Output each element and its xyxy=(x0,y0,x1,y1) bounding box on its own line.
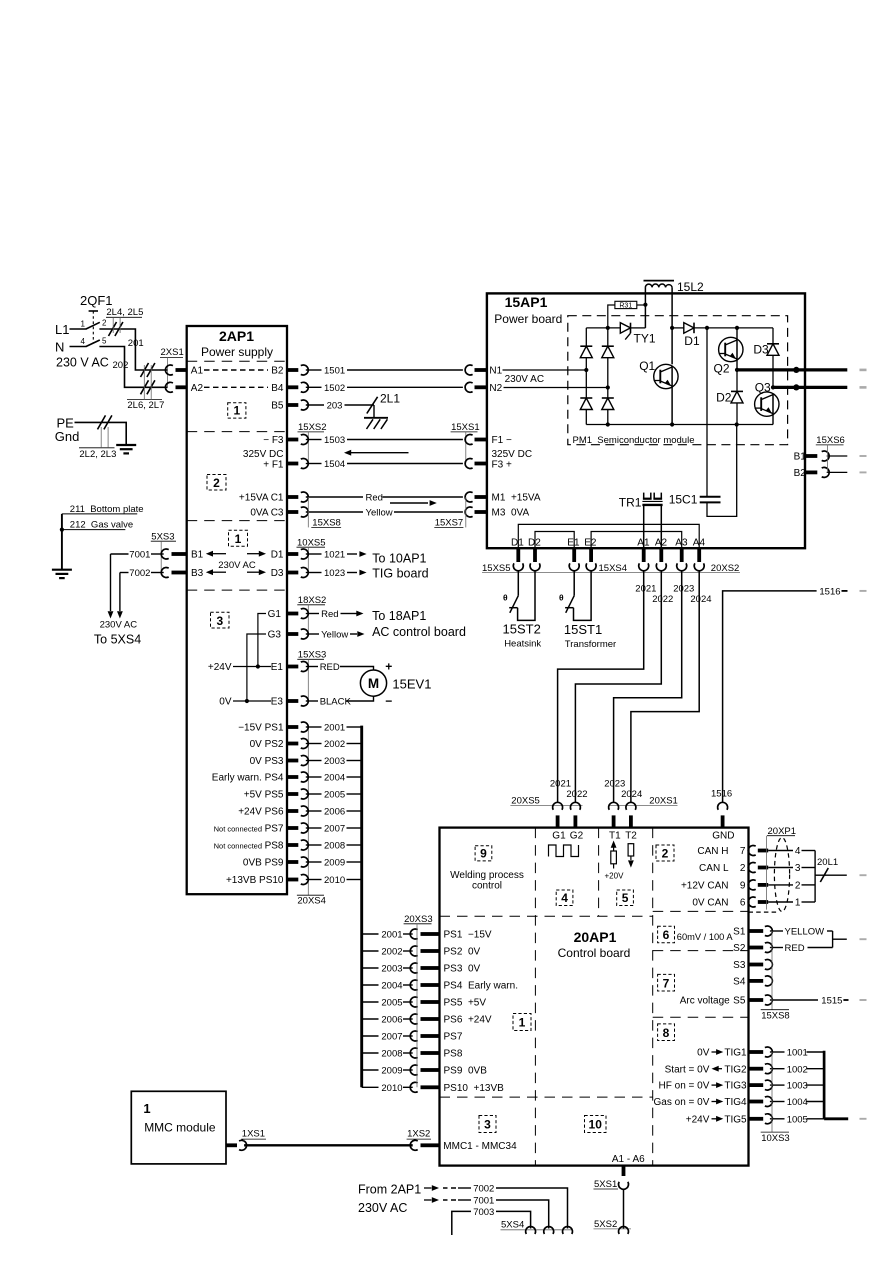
svg-text:2: 2 xyxy=(662,847,669,861)
svg-text:15C1: 15C1 xyxy=(669,493,698,507)
pin E3 / wire BLACK xyxy=(287,699,298,703)
diode bridge lower-right xyxy=(602,397,614,399)
svg-text:B5: B5 xyxy=(271,401,284,412)
svg-text:18XS2: 18XS2 xyxy=(298,595,327,606)
ground xyxy=(52,569,72,571)
diode D2 xyxy=(736,370,738,392)
svg-text:A1: A1 xyxy=(191,366,204,377)
wire PE xyxy=(75,422,127,445)
wire DC+ right xyxy=(694,327,773,329)
ferrite 20L1 xyxy=(820,868,828,882)
svg-text:1516: 1516 xyxy=(819,587,840,598)
svg-text:20XS5: 20XS5 xyxy=(511,796,540,807)
control board 20AP1 xyxy=(440,828,749,1166)
svg-text:T1: T1 xyxy=(609,830,621,841)
svg-text:20XS1: 20XS1 xyxy=(649,796,678,807)
svg-text:202: 202 xyxy=(113,360,129,371)
pin C3 / wire Yellow xyxy=(287,510,298,514)
pin PS4 / wire 2004 xyxy=(362,984,379,986)
TIG bus xyxy=(823,1051,826,1119)
svg-text:2: 2 xyxy=(740,863,746,874)
pin E1 / wire RED xyxy=(287,665,298,669)
svg-text:− F3: − F3 xyxy=(263,435,284,446)
svg-text:E2: E2 xyxy=(584,537,597,548)
svg-text:PS8: PS8 xyxy=(444,1049,463,1060)
section 2 xyxy=(656,845,674,861)
svg-text:B4: B4 xyxy=(271,383,284,394)
svg-text:D2: D2 xyxy=(716,391,732,405)
svg-text:G1: G1 xyxy=(552,830,566,841)
svg-text:+15VA C1: +15VA C1 xyxy=(239,492,284,503)
svg-text:Early warn. PS4: Early warn. PS4 xyxy=(212,773,284,784)
svg-text:2006: 2006 xyxy=(381,1015,402,1026)
svg-text:Arc voltage: Arc voltage xyxy=(680,996,730,1007)
svg-text:2: 2 xyxy=(102,319,107,328)
svg-text:2004: 2004 xyxy=(381,981,402,992)
cable label 2L4, 2L5 xyxy=(109,322,117,336)
svg-text:S5: S5 xyxy=(733,996,746,1007)
svg-text:S3: S3 xyxy=(733,960,746,971)
pin M1 on 15AP1 xyxy=(475,495,487,499)
svg-text:1023: 1023 xyxy=(324,568,345,579)
section 1 xyxy=(229,530,248,546)
svg-text:230V AC: 230V AC xyxy=(100,619,138,630)
svg-text:G1: G1 xyxy=(268,609,282,620)
svg-text:7002: 7002 xyxy=(129,568,150,579)
svg-text:20L1: 20L1 xyxy=(817,857,838,868)
ground xyxy=(116,444,136,446)
wire to ground xyxy=(61,514,63,570)
svg-text:2: 2 xyxy=(213,476,220,490)
section 10 xyxy=(585,1116,607,1133)
svg-text:2L4, 2L5: 2L4, 2L5 xyxy=(106,307,143,318)
pin F1- on 15AP1 xyxy=(475,438,487,442)
svg-text:15AP1: 15AP1 xyxy=(505,294,548,310)
svg-text:To 5XS4: To 5XS4 xyxy=(94,633,141,647)
svg-text:3: 3 xyxy=(484,1118,491,1132)
svg-text:20XS4: 20XS4 xyxy=(297,896,326,907)
svg-text:M3 0VA: M3 0VA xyxy=(492,508,530,519)
svg-text:D1: D1 xyxy=(271,550,284,561)
svg-text:15XS1: 15XS1 xyxy=(451,422,480,433)
svg-text:212 Gas valve: 212 Gas valve xyxy=(70,519,133,530)
pin F3 / wire 1503 xyxy=(287,438,298,442)
gate waveform xyxy=(549,845,579,857)
svg-text:2010: 2010 xyxy=(381,1083,402,1094)
svg-text:0V CAN: 0V CAN xyxy=(692,898,728,909)
wire 7003 bottom xyxy=(452,1211,471,1235)
svg-text:1503: 1503 xyxy=(324,435,345,446)
svg-text:2001: 2001 xyxy=(324,723,345,734)
thermostat 15ST2 xyxy=(517,571,519,596)
svg-text:−15V PS1: −15V PS1 xyxy=(238,723,284,734)
svg-text:7001: 7001 xyxy=(473,1196,494,1207)
svg-text:2010: 2010 xyxy=(324,875,345,886)
svg-text:15L2: 15L2 xyxy=(677,280,704,294)
wire 1516 xyxy=(723,591,817,803)
wire 2023 xyxy=(614,571,682,803)
svg-text:2: 2 xyxy=(795,881,801,892)
svg-text:TIG1: TIG1 xyxy=(724,1048,747,1059)
svg-text:1001: 1001 xyxy=(787,1048,808,1059)
pin PS5 / wire 2005 xyxy=(287,792,298,796)
svg-text:2005: 2005 xyxy=(324,790,345,801)
svg-text:7: 7 xyxy=(663,976,670,990)
svg-text:2021: 2021 xyxy=(550,778,571,789)
svg-text:Control board: Control board xyxy=(558,946,631,960)
svg-text:1: 1 xyxy=(519,1016,526,1030)
svg-text:1: 1 xyxy=(795,898,801,909)
svg-text:5: 5 xyxy=(622,891,629,905)
svg-text:7: 7 xyxy=(740,846,746,857)
svg-text:PS4 Early warn.: PS4 Early warn. xyxy=(444,981,518,992)
svg-text:HF on = 0V: HF on = 0V xyxy=(659,1081,710,1092)
svg-text:L1: L1 xyxy=(55,322,69,337)
svg-text:Q1: Q1 xyxy=(639,359,655,373)
svg-text:2009: 2009 xyxy=(324,858,345,869)
svg-text:Gnd: Gnd xyxy=(55,429,80,444)
svg-text:10XS3: 10XS3 xyxy=(761,1133,790,1144)
svg-text:D3: D3 xyxy=(271,568,284,579)
svg-text:230V AC: 230V AC xyxy=(505,374,544,385)
svg-text:2007: 2007 xyxy=(324,824,345,835)
svg-text:control: control xyxy=(472,880,502,891)
svg-text:G2: G2 xyxy=(570,830,584,841)
svg-text:15XS8: 15XS8 xyxy=(312,518,341,529)
svg-text:+20V: +20V xyxy=(605,872,625,881)
svg-text:0VB PS9: 0VB PS9 xyxy=(243,858,284,869)
svg-text:Q2: Q2 xyxy=(714,362,730,376)
section 3 xyxy=(479,1116,496,1133)
svg-text:S4: S4 xyxy=(733,977,746,988)
weld output line 2 xyxy=(773,386,847,389)
connector GND xyxy=(718,802,728,810)
svg-text:0V PS2: 0V PS2 xyxy=(250,739,284,750)
wire G1 to E1 xyxy=(258,614,266,667)
svg-text:7001: 7001 xyxy=(129,550,150,561)
svg-text:To 18AP1: To 18AP1 xyxy=(372,609,426,623)
svg-text:15XS7: 15XS7 xyxy=(435,518,464,529)
terminal bus D1-A4 xyxy=(518,524,699,548)
wire L1 xyxy=(70,328,87,330)
svg-text:RED: RED xyxy=(785,943,805,954)
svg-text:AC control board: AC control board xyxy=(372,625,466,639)
connector 10XS3 xyxy=(771,1052,773,1132)
svg-text:+24V: +24V xyxy=(208,662,232,673)
transistor Q3 xyxy=(755,392,779,416)
internal link A1-B2 xyxy=(204,369,268,371)
pin M3 on 15AP1 xyxy=(475,510,487,514)
svg-text:Start = 0V: Start = 0V xyxy=(665,1064,710,1075)
svg-text:E3: E3 xyxy=(271,697,284,708)
svg-text:2022: 2022 xyxy=(566,789,587,800)
svg-text:PS10 +13VB: PS10 +13VB xyxy=(444,1083,505,1094)
svg-text:Q3: Q3 xyxy=(755,381,771,395)
resistor R31 xyxy=(615,301,637,308)
arrow xyxy=(247,553,259,555)
section dividers xyxy=(534,828,536,1166)
svg-text:+5V PS5: +5V PS5 xyxy=(244,790,284,801)
capacitor 15C1 xyxy=(706,328,708,497)
svg-text:TIG5: TIG5 xyxy=(724,1114,747,1125)
svg-text:M: M xyxy=(368,676,379,691)
svg-text:2021: 2021 xyxy=(635,583,656,594)
svg-text:From 2AP1: From 2AP1 xyxy=(358,1182,421,1196)
svg-text:CAN L: CAN L xyxy=(699,863,729,874)
pin G3 / wire Yellow xyxy=(287,632,298,636)
svg-text:Power supply: Power supply xyxy=(201,345,273,359)
svg-text:+12V CAN: +12V CAN xyxy=(681,881,729,892)
svg-text:9: 9 xyxy=(740,881,746,892)
svg-text:230V AC: 230V AC xyxy=(358,1201,407,1215)
svg-text:D2: D2 xyxy=(528,537,541,548)
svg-text:θ: θ xyxy=(503,593,508,603)
svg-text:2003: 2003 xyxy=(381,964,402,975)
svg-text:0V: 0V xyxy=(219,697,232,708)
wire E3 xyxy=(233,700,271,702)
pin PS10 / wire 2010 xyxy=(287,878,298,882)
svg-text:E1: E1 xyxy=(567,537,580,548)
section 1 xyxy=(513,1014,531,1031)
svg-text:Welding process: Welding process xyxy=(450,870,524,881)
svg-text:5: 5 xyxy=(102,337,107,346)
svg-text:Red: Red xyxy=(321,609,338,620)
svg-text:A4: A4 xyxy=(693,537,706,548)
svg-text:1XS2: 1XS2 xyxy=(407,1128,430,1139)
pin PS4 / wire 2004 xyxy=(287,775,298,779)
pin D1 / wire 1021 xyxy=(287,552,298,556)
svg-text:8: 8 xyxy=(663,1026,670,1040)
svg-text:203: 203 xyxy=(327,401,343,412)
svg-text:A1 - A6: A1 - A6 xyxy=(612,1154,645,1165)
svg-text:B3: B3 xyxy=(191,568,204,579)
wire E1 xyxy=(233,666,271,668)
wire 7002 bottom xyxy=(424,1187,432,1189)
connector 15XS8 xyxy=(771,931,773,1010)
wire 7002 down xyxy=(119,573,121,612)
svg-text:15ST2: 15ST2 xyxy=(503,622,541,637)
svg-text:CAN H: CAN H xyxy=(697,846,728,857)
svg-text:2L2, 2L3: 2L2, 2L3 xyxy=(79,449,116,460)
arrow xyxy=(247,571,259,573)
svg-text:15XS5: 15XS5 xyxy=(482,563,511,574)
svg-text:2002: 2002 xyxy=(381,947,402,958)
pin D3 / wire 1023 xyxy=(287,571,298,575)
wire DC+ top xyxy=(586,327,620,329)
wire G3 to E3 xyxy=(247,634,266,701)
svg-text:2002: 2002 xyxy=(324,739,345,750)
svg-text:2006: 2006 xyxy=(324,807,345,818)
svg-text:3: 3 xyxy=(216,614,223,628)
connector 1XS1 xyxy=(226,1143,237,1147)
pin PS10 / wire 2010 xyxy=(362,1086,379,1088)
svg-text:TIG4: TIG4 xyxy=(724,1097,747,1108)
svg-text:10: 10 xyxy=(589,1118,603,1132)
motor 15EV1 xyxy=(360,670,386,696)
pin PS9 / wire 2009 xyxy=(287,860,298,864)
wire 7002 xyxy=(120,572,129,574)
arrow right xyxy=(390,502,428,504)
svg-text:5XS2: 5XS2 xyxy=(594,1219,617,1230)
internal link A2-B4 xyxy=(204,386,268,388)
pin PS2 / wire 2002 xyxy=(362,950,379,952)
section 6 xyxy=(658,926,675,943)
connector pin N2 xyxy=(475,385,487,389)
bottom pin A1-A6 xyxy=(622,1166,626,1176)
diode D3 xyxy=(772,328,774,344)
svg-text:Gas on = 0V: Gas on = 0V xyxy=(654,1097,710,1108)
svg-text:1502: 1502 xyxy=(324,383,345,394)
svg-text:R31: R31 xyxy=(619,302,632,309)
svg-text:Power board: Power board xyxy=(494,312,562,326)
wire 5XS1 to 5XS2 xyxy=(623,1189,625,1229)
weld output line 1 xyxy=(737,368,847,371)
svg-text:2009: 2009 xyxy=(381,1066,402,1077)
svg-text:+ F1: + F1 xyxy=(263,459,284,470)
wire DC- bottom xyxy=(586,424,773,426)
svg-text:201: 201 xyxy=(128,338,144,349)
top pins of 20AP1 xyxy=(556,815,560,827)
svg-text:2023: 2023 xyxy=(604,778,625,789)
svg-text:230V AC: 230V AC xyxy=(218,560,256,571)
svg-text:PS1 −15V: PS1 −15V xyxy=(444,930,492,941)
svg-text:20XS2: 20XS2 xyxy=(711,563,740,574)
svg-text:1XS1: 1XS1 xyxy=(242,1128,265,1139)
svg-text:TIG2: TIG2 xyxy=(724,1064,747,1075)
arrow xyxy=(213,553,226,555)
svg-text:TIG3: TIG3 xyxy=(724,1081,747,1092)
ferrite 2L1 xyxy=(367,397,378,414)
rectifier bridge right leg xyxy=(607,328,609,346)
svg-text:2007: 2007 xyxy=(381,1032,402,1043)
T2 sense resistor xyxy=(630,842,632,845)
svg-text:10XS5: 10XS5 xyxy=(297,537,326,548)
svg-text:Not connected: Not connected xyxy=(214,825,262,834)
svg-text:1: 1 xyxy=(81,320,86,329)
svg-text:20AP1: 20AP1 xyxy=(574,929,617,945)
svg-text:MMC1 - MMC34: MMC1 - MMC34 xyxy=(443,1141,517,1152)
svg-text:6: 6 xyxy=(740,898,746,909)
svg-text:B1: B1 xyxy=(191,550,204,561)
wire 15L2 right lead xyxy=(671,287,673,364)
svg-text:15XS3: 15XS3 xyxy=(298,650,327,661)
thermostat 15ST1 xyxy=(573,571,575,596)
power board 15AP1 xyxy=(487,293,805,548)
svg-text:B1: B1 xyxy=(794,452,807,463)
svg-text:2008: 2008 xyxy=(381,1049,402,1060)
svg-text:GND: GND xyxy=(712,830,734,841)
svg-text:Transformer: Transformer xyxy=(565,639,616,650)
diode bridge lower-left xyxy=(580,397,592,399)
off-page stubs xyxy=(860,369,867,372)
svg-text:1: 1 xyxy=(143,1101,150,1116)
wire 7001 bottom xyxy=(424,1199,432,1201)
svg-text:E1: E1 xyxy=(271,662,284,673)
svg-text:15XS2: 15XS2 xyxy=(298,422,327,433)
pin PS8 / wire 2008 xyxy=(362,1052,379,1054)
svg-text:A2: A2 xyxy=(191,383,204,394)
svg-text:TY1: TY1 xyxy=(634,332,656,346)
svg-text:G3: G3 xyxy=(268,630,282,641)
connector 15XS1 pin N1 xyxy=(475,368,487,372)
svg-text:1501: 1501 xyxy=(324,366,345,377)
wire N2 xyxy=(504,387,608,389)
svg-text:2XS1: 2XS1 xyxy=(161,347,184,358)
svg-text:2024: 2024 xyxy=(621,789,642,800)
chassis ground xyxy=(364,417,388,419)
thyristor TY1 xyxy=(620,323,630,334)
svg-text:1004: 1004 xyxy=(787,1097,808,1108)
cable label 2L6, 2L7 xyxy=(141,363,149,377)
svg-text:1504: 1504 xyxy=(324,459,345,470)
svg-text:1005: 1005 xyxy=(787,1114,808,1125)
pin PS6 / wire 2006 xyxy=(287,809,298,813)
svg-text:2QF1: 2QF1 xyxy=(80,293,113,308)
rectifier bridge left leg xyxy=(585,328,587,346)
svg-text:9: 9 xyxy=(480,847,487,861)
svg-text:N2: N2 xyxy=(489,383,502,394)
svg-text:2L1: 2L1 xyxy=(380,392,400,406)
wire N xyxy=(70,346,87,348)
section 5 xyxy=(617,890,634,906)
section 3 xyxy=(211,612,230,628)
svg-text:+24V PS6: +24V PS6 xyxy=(238,807,284,818)
svg-text:3: 3 xyxy=(795,863,801,874)
section 8 xyxy=(658,1024,675,1041)
svg-text:Yellow: Yellow xyxy=(366,507,393,518)
svg-text:Not connected: Not connected xyxy=(214,842,262,851)
section 4 xyxy=(556,890,573,906)
pin PS6 / wire 2006 xyxy=(362,1018,379,1020)
pin PS2 / wire 2002 xyxy=(287,742,298,746)
section 7 xyxy=(658,974,675,991)
connector 2XS1 pin B2 / wire 1501 xyxy=(287,368,298,372)
wire TY1 cathode xyxy=(631,327,646,329)
svg-text:PS2 0V: PS2 0V xyxy=(444,947,481,958)
pin F1 / wire 1504 xyxy=(287,462,298,466)
svg-text:2L6, 2L7: 2L6, 2L7 xyxy=(127,400,164,411)
wire 7001 down xyxy=(110,554,112,611)
wire 2024 xyxy=(631,571,699,803)
wire 2022 xyxy=(575,571,661,803)
svg-text:PS5 +5V: PS5 +5V xyxy=(444,998,487,1009)
inductor 15L2 xyxy=(644,280,675,282)
arrow left xyxy=(351,452,409,454)
diode bridge upper-right xyxy=(602,345,614,347)
wire N1 xyxy=(503,369,587,371)
svg-text:F1 −: F1 − xyxy=(492,435,512,446)
svg-text:BLACK: BLACK xyxy=(320,697,352,708)
pin PS1 / wire 2001 xyxy=(287,725,298,729)
svg-text:0V PS3: 0V PS3 xyxy=(250,756,284,767)
svg-text:PM1 Semiconductor module: PM1 Semiconductor module xyxy=(573,435,695,446)
svg-text:1003: 1003 xyxy=(787,1081,808,1092)
svg-text:θ: θ xyxy=(559,593,564,603)
wire to chassis ground xyxy=(373,405,375,418)
svg-text:1516: 1516 xyxy=(711,788,732,799)
svg-text:M1 +15VA: M1 +15VA xyxy=(492,492,541,503)
transistor Q2 xyxy=(736,328,738,339)
svg-text:230 V AC: 230 V AC xyxy=(56,356,109,370)
section 2 xyxy=(207,475,226,491)
svg-text:6: 6 xyxy=(663,928,670,942)
module PM1 dashed xyxy=(568,316,788,445)
pin B5 / wire 203 xyxy=(287,403,298,407)
svg-text:Red: Red xyxy=(366,492,383,503)
svg-text:T2: T2 xyxy=(625,830,637,841)
svg-text:A1: A1 xyxy=(637,537,650,548)
pin C1 / wire Red xyxy=(287,495,298,499)
